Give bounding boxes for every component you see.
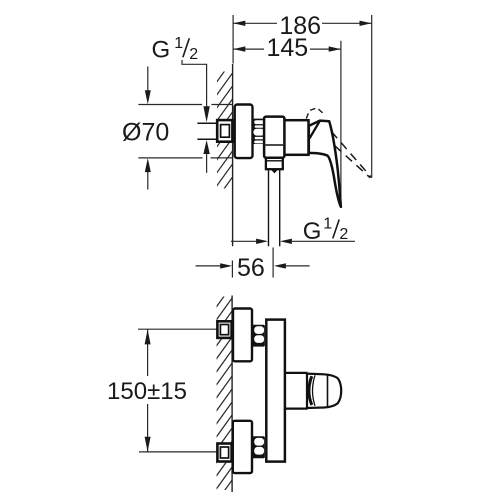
svg-text:150±15: 150±15 [107, 378, 187, 405]
svg-text:56: 56 [237, 254, 265, 282]
svg-text:2: 2 [189, 46, 198, 63]
svg-text:1: 1 [323, 215, 332, 232]
svg-text:G: G [303, 218, 322, 245]
svg-text:G: G [152, 36, 171, 63]
svg-text:1: 1 [174, 35, 183, 52]
svg-text:2: 2 [339, 226, 348, 243]
svg-text:145: 145 [266, 34, 308, 62]
svg-text:Ø70: Ø70 [122, 118, 169, 146]
